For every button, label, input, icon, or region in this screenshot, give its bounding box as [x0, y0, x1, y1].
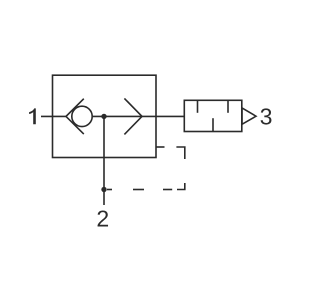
silencer body U2: [184, 100, 242, 131]
valve body U1 (one-way flow control valve enclosure): [53, 75, 157, 157]
check valve ball: [72, 106, 92, 126]
flow direction arrow: [124, 98, 142, 134]
dashed pilot line top corner: [176, 147, 184, 159]
dashed pilot line dash c: [163, 189, 172, 191]
dashed pilot line dash a: [107, 189, 112, 191]
wire flow line: [93, 115, 185, 117]
label port 1: [29, 108, 36, 124]
dashed pilot line dash b: [133, 189, 144, 191]
wire port 1: [41, 115, 66, 117]
silencer outlet triangle: [242, 108, 256, 124]
silencer baffle 2: [227, 100, 229, 113]
label port 3: [261, 108, 272, 124]
silencer baffle 3: [212, 118, 214, 131]
check valve seat: [66, 99, 84, 134]
node junction: [101, 114, 106, 119]
wire stub from valve body: [156, 146, 165, 148]
wire port 2: [103, 116, 105, 205]
node junction lower: [101, 187, 106, 192]
dashed pilot line bottom corner: [177, 183, 185, 190]
silencer baffle 1: [197, 100, 199, 113]
label port 2: [98, 210, 108, 226]
